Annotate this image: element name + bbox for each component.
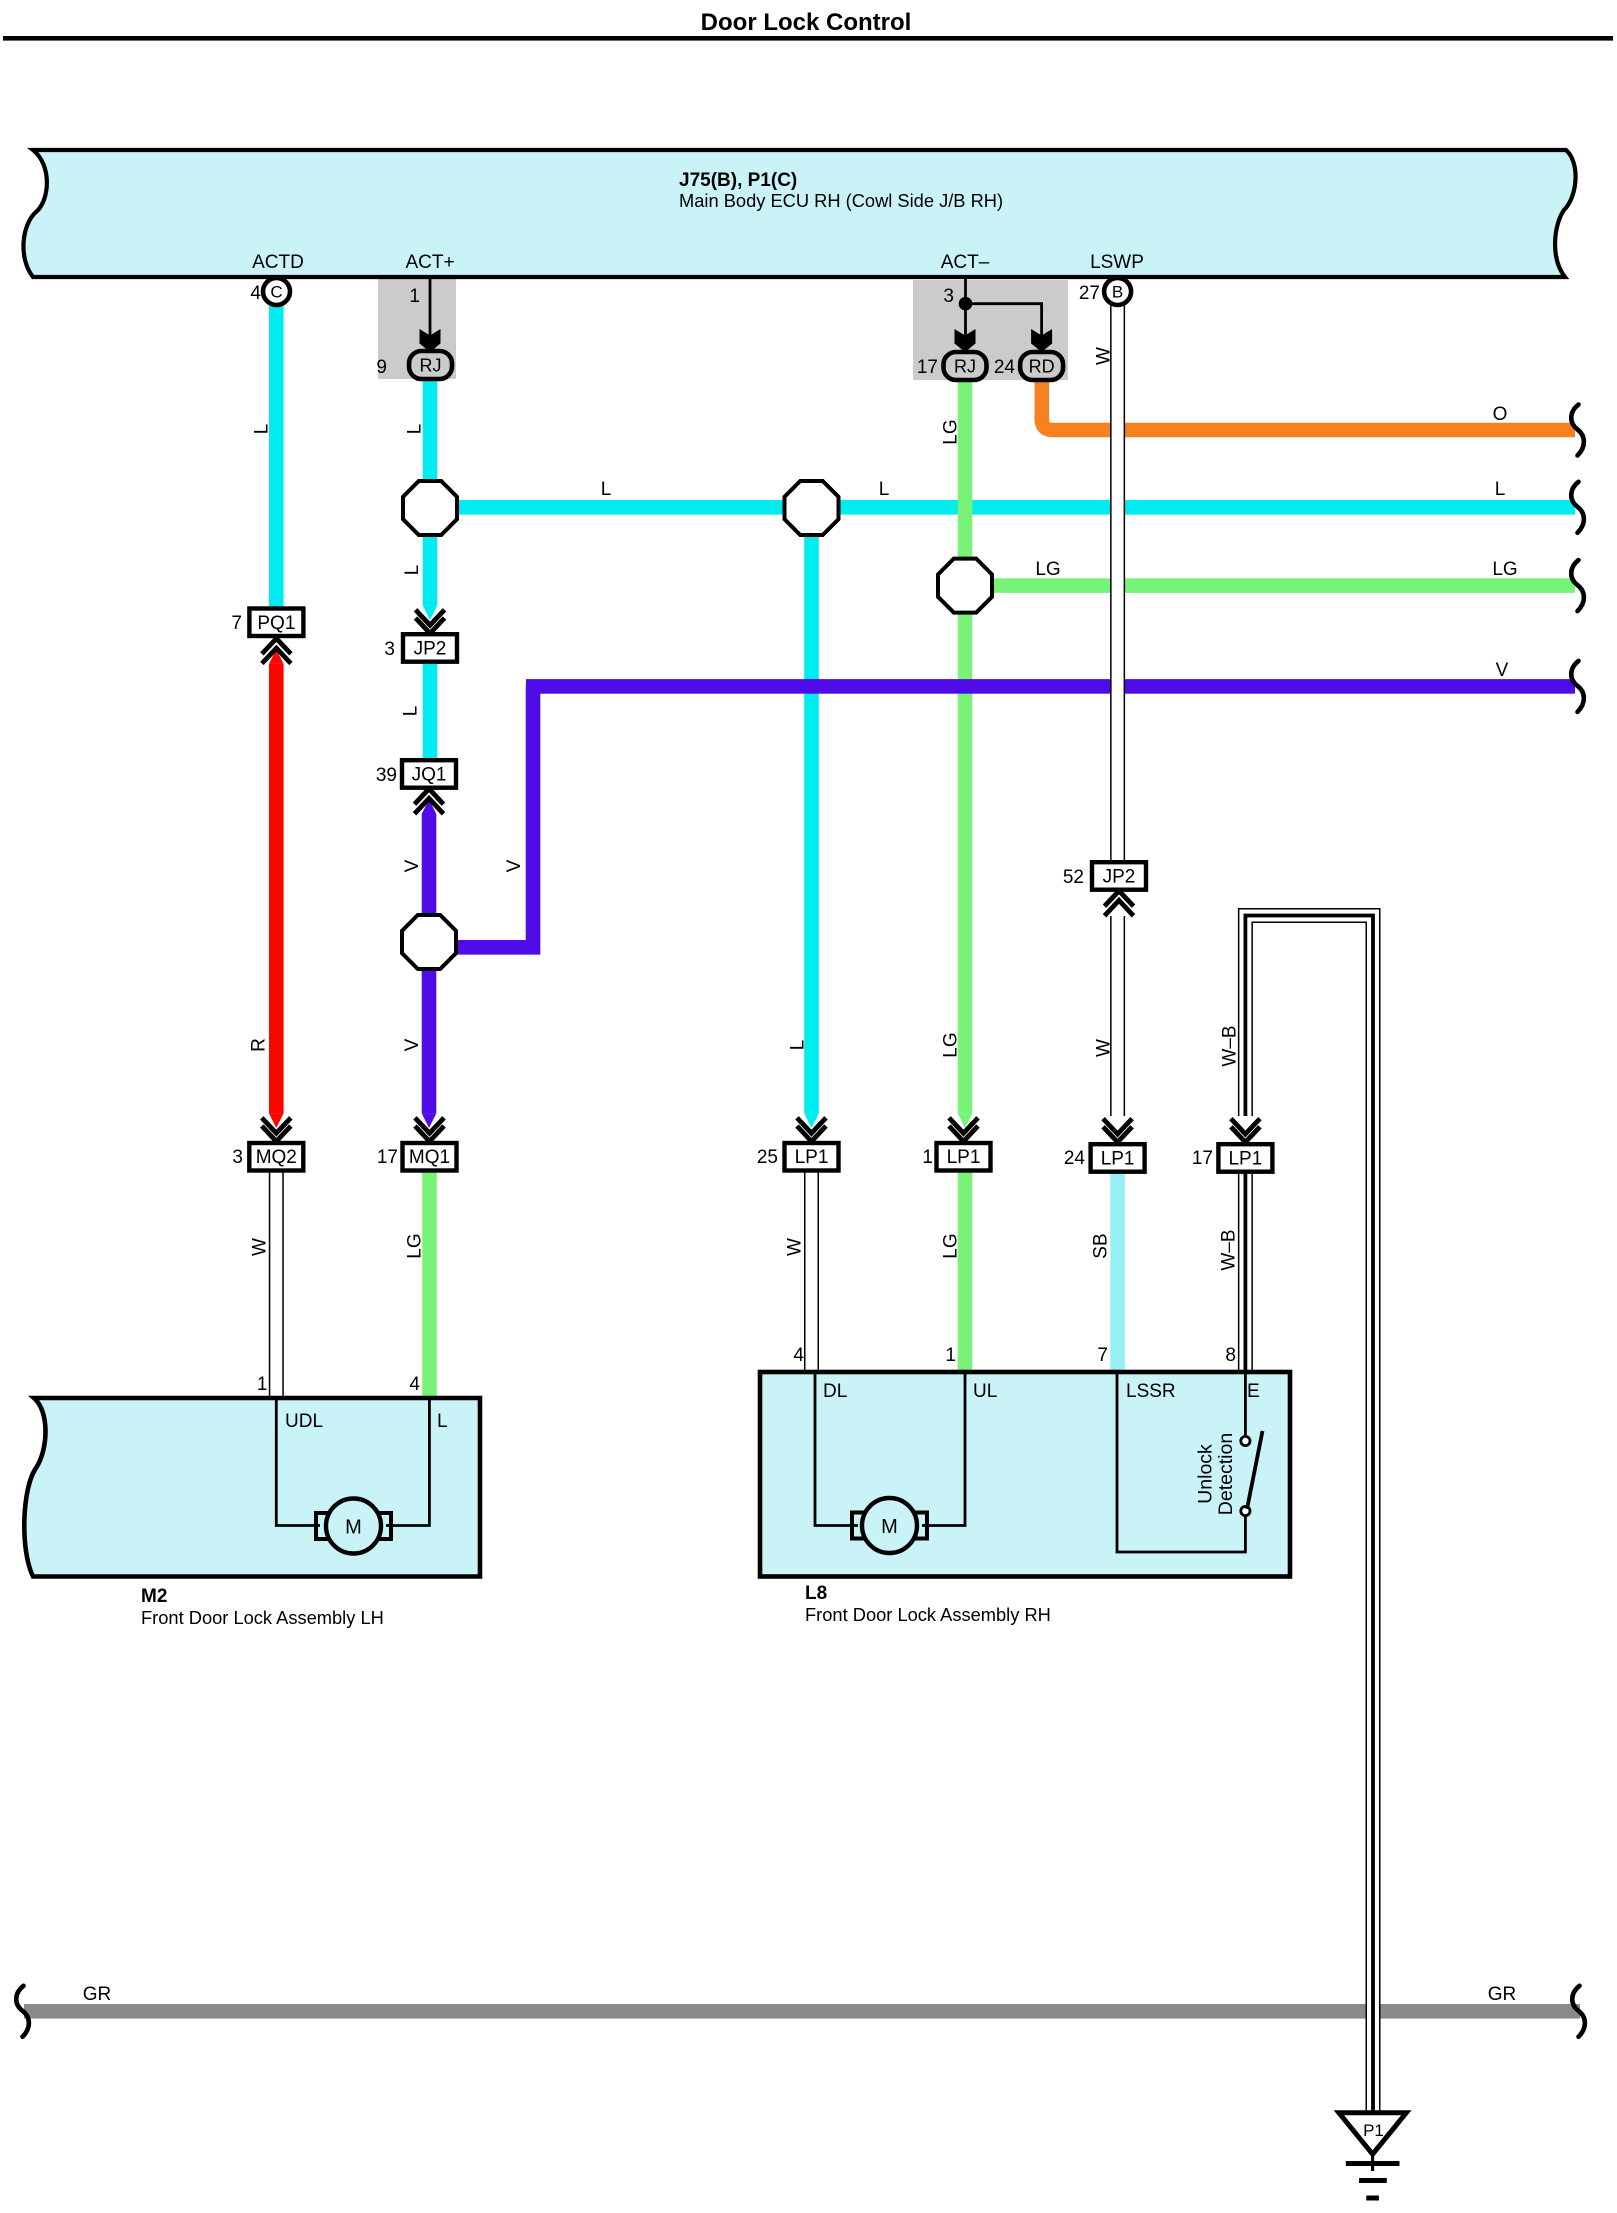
svg-text:25: 25 [757,1147,778,1168]
svg-text:17: 17 [917,357,938,378]
svg-text:4: 4 [250,283,261,304]
svg-text:Door Lock Control: Door Lock Control [701,9,912,36]
break symbol GR wire right [1572,1986,1585,2037]
connector JP2 (pin 3) [403,634,457,662]
wire LG below MQ1 to M2 L [422,1169,437,1399]
wire V violet JQ1 to octagon4 [422,799,437,814]
wire L cyan octagon2 down to LP1(25) with tip [804,533,819,1113]
wire V violet horizontal bus [526,679,1575,694]
connector JP2 (pin 52) [1092,862,1146,890]
arrow into RD (ACT-) [1031,329,1052,352]
svg-text:L: L [400,706,421,717]
chevrons above LP1 (1) [949,1118,978,1133]
svg-text:MQ2: MQ2 [256,1147,297,1168]
wire ACT- pin 3 lead [964,277,967,338]
wire L8 internal DL to motor [815,1372,858,1526]
svg-text:LP1: LP1 [1228,1149,1262,1170]
wire LG octagon3 down to LP1(1) with tip [958,612,973,1113]
svg-text:M2: M2 [141,1586,167,1607]
svg-text:W: W [249,1238,270,1256]
svg-text:17: 17 [1192,1148,1213,1169]
wire L8 internal E to switch [1244,1372,1247,1436]
svg-text:1: 1 [257,1374,268,1395]
svg-text:3: 3 [943,286,954,307]
svg-text:RJ: RJ [420,356,442,376]
svg-text:LG: LG [940,1233,961,1258]
svg-text:Front Door Lock Assembly RH: Front Door Lock Assembly RH [805,1604,1051,1625]
wire W white below MQ2 to M2 UDL [269,1172,284,1398]
connector RJ (pin 9) [409,351,452,379]
junction dot ACT- [959,297,973,311]
chevrons above JP2 (3) [416,610,445,625]
chevrons above LP1 (17) [1231,1119,1260,1134]
connector PQ1 (pin 7) [249,609,303,637]
connector LP1 (pin 24) [1091,1144,1145,1172]
svg-text:GR: GR [83,1984,112,2005]
connector RJ (pin 17) [944,352,987,380]
wire SB below LP1(24) to L8 LSSR [1110,1171,1125,1373]
svg-text:LSWP: LSWP [1090,252,1144,273]
svg-text:L8: L8 [805,1583,827,1604]
svg-text:C: C [270,283,282,302]
wire W-B loop from LP1(17) up over and down to ground P1 [1245,916,1373,2114]
svg-text:LG: LG [404,1233,425,1258]
svg-text:V: V [402,1038,423,1051]
connector MQ2 (pin 3) [249,1143,303,1171]
switch unlock detection contacts [1241,1436,1250,1445]
wire L cyan vertical ACT+ column (RJ to octagon) [423,378,438,483]
svg-text:J75(B), P1(C): J75(B), P1(C) [679,170,797,191]
svg-text:DL: DL [823,1381,847,1402]
svg-text:24: 24 [994,357,1016,378]
svg-text:W: W [784,1238,805,1256]
wire M2 internal L to motor [386,1398,429,1526]
connector B (LSWP pin 27) [1104,278,1131,305]
svg-text:3: 3 [384,639,395,660]
svg-text:W–B: W–B [1219,1025,1240,1066]
svg-text:RJ: RJ [954,357,976,377]
svg-text:V: V [402,859,423,872]
wire V violet octagon4 right bend up to horizontal bus [455,686,533,947]
svg-text:ACT+: ACT+ [405,252,454,273]
ECU box J75(B) P1(C) Main Body ECU RH [23,150,1575,277]
wire ACT- branch to RD [966,304,1042,338]
svg-text:9: 9 [376,357,387,378]
svg-text:O: O [1493,404,1508,425]
svg-text:17: 17 [377,1147,398,1168]
chevrons above MQ1 [415,1118,444,1133]
wire M2 inner vertical UDL [276,1398,429,1526]
svg-text:SB: SB [1090,1233,1111,1258]
wire L cyan horizontal bus [430,500,1575,515]
connector MQ1 (pin 17) [403,1143,457,1171]
svg-text:E: E [1247,1381,1260,1402]
wire L cyan JP2 to JQ1 [423,660,438,762]
connector LP1 (pin 1) [937,1143,991,1171]
motor M in L8 [852,1513,864,1539]
wire L cyan octagon1 to JP2 with tip [423,533,438,605]
svg-text:7: 7 [231,613,242,634]
break symbol L wire [1571,482,1584,533]
svg-text:L: L [879,479,890,500]
wire LG vertical ACT- column RJ to octagon3 [958,378,973,559]
break symbol LG wire [1571,560,1584,611]
wire W-B below LP1(17) to L8 E [1238,1171,1253,1372]
svg-text:Unlock: Unlock [1195,1444,1217,1504]
svg-text:R: R [248,1038,269,1052]
wire L8 internal LSSR to switch [1117,1372,1245,1552]
chevrons below JQ1 [415,789,444,804]
chevrons below JP2 (52) [1105,891,1134,906]
svg-text:Front Door Lock Assembly LH: Front Door Lock Assembly LH [141,1607,384,1628]
wire L8 internal UL to motor [922,1372,965,1526]
break symbol V wire [1571,661,1584,712]
wire W white below LP1(25) to L8 DL [804,1171,819,1372]
chevrons above MQ2 [262,1118,291,1133]
svg-text:LP1: LP1 [947,1147,981,1168]
svg-text:8: 8 [1225,1345,1236,1366]
svg-text:B: B [1112,283,1123,302]
svg-text:L: L [404,424,425,435]
svg-text:L: L [787,1040,808,1051]
break symbol O wire [1571,405,1584,456]
svg-text:52: 52 [1063,867,1084,888]
svg-text:PQ1: PQ1 [257,613,295,634]
svg-text:UL: UL [973,1381,997,1402]
svg-text:P1: P1 [1363,2121,1384,2140]
svg-text:M: M [881,1516,898,1538]
node octagon junction O2 (L bus) [785,481,839,535]
wire M2 internal UDL to motor [276,1398,320,1526]
svg-text:L: L [601,479,612,500]
svg-text:JP2: JP2 [414,639,447,660]
gray shade box ACT- connector [913,280,1068,380]
wire ACT+ pin 1 lead [429,277,432,338]
connector LP1 (pin 17) [1218,1144,1272,1172]
svg-text:LP1: LP1 [795,1147,829,1168]
arrow into RJ (ACT-) [955,329,976,352]
node octagon junction O1 (L bus) [403,481,457,535]
svg-text:W–B: W–B [1218,1229,1239,1270]
svg-text:ACTD: ACTD [252,252,304,273]
svg-text:L: L [402,565,423,576]
svg-text:W: W [1093,1039,1114,1057]
gray shade box ACT+ connector [378,279,456,379]
svg-text:24: 24 [1064,1148,1086,1169]
svg-text:1: 1 [922,1147,933,1168]
svg-text:1: 1 [409,286,420,307]
switch lever [1247,1431,1263,1509]
svg-text:L: L [251,424,272,435]
chevrons below PQ1 [262,639,291,654]
chevrons above LP1 (25) [797,1118,826,1133]
connector RD (pin 24) [1020,352,1063,380]
chevrons above LP1 (24) [1103,1119,1132,1134]
wire GR ground bus [24,2004,1580,2019]
svg-text:V: V [1496,660,1509,681]
break symbol GR wire left [16,1986,29,2037]
svg-text:MQ1: MQ1 [409,1147,450,1168]
node octagon junction O3 (LG bus) [938,559,992,613]
svg-text:LG: LG [940,1032,961,1057]
M2 Front Door Lock Assembly LH box [24,1398,480,1577]
wire LG horizontal from octagon3 [965,578,1575,593]
node octagon junction O4 (V) [402,915,456,969]
wire O orange from RD [1042,378,1575,430]
svg-text:39: 39 [376,765,397,786]
wire LG below LP1(1) to L8 UL [958,1171,973,1373]
svg-text:M: M [345,1517,362,1539]
svg-text:3: 3 [232,1147,243,1168]
svg-text:JP2: JP2 [1103,867,1136,888]
connector LP1 (pin 25) [785,1143,839,1171]
svg-text:7: 7 [1097,1345,1108,1366]
svg-text:LG: LG [1035,559,1060,580]
svg-text:ACT–: ACT– [941,252,990,273]
motor M in M2 [316,1513,328,1539]
svg-text:Main Body ECU RH (Cowl Side J/: Main Body ECU RH (Cowl Side J/B RH) [679,190,1003,211]
connector JQ1 (pin 39) [402,760,456,788]
svg-text:RD: RD [1029,357,1055,377]
svg-text:LG: LG [1492,559,1517,580]
svg-text:LG: LG [940,419,961,444]
L8 Front Door Lock Assembly RH box [760,1372,1290,1577]
svg-text:Detection: Detection [1215,1433,1237,1515]
wire L cyan vertical ACTD column [269,300,284,608]
ground P1 [1339,2113,1406,2154]
connector C (ACTD pin 4) [263,278,290,305]
arrow into RJ (ACT+) [420,329,441,352]
svg-text:GR: GR [1488,1984,1517,2005]
wire W white LSWP column upper (B to JP2 52) [1110,304,1125,863]
svg-text:UDL: UDL [285,1411,323,1432]
svg-text:LP1: LP1 [1101,1149,1135,1170]
wire W white LSWP column lower (JP2 52 to LP1 24) [1110,916,1125,1116]
svg-text:4: 4 [409,1374,420,1395]
svg-text:L: L [1495,479,1506,500]
wire R red PQ1 to MQ2 [269,649,284,664]
svg-text:27: 27 [1079,283,1100,304]
svg-text:V: V [504,859,525,872]
svg-text:JQ1: JQ1 [412,765,447,786]
wire V violet octagon4 down to MQ1 with tip [422,969,437,1113]
svg-text:LSSR: LSSR [1126,1381,1176,1402]
svg-text:L: L [437,1411,448,1432]
svg-text:4: 4 [793,1345,804,1366]
svg-text:1: 1 [945,1345,956,1366]
svg-text:W: W [1093,347,1114,365]
wire L8 inner verticals [815,1372,1245,1552]
